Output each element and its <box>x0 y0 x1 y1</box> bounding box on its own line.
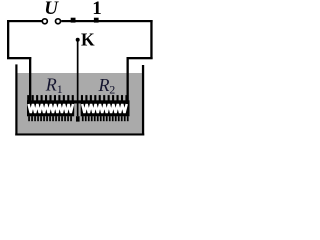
wire: left feed into R1 <box>29 57 31 102</box>
terminal: open circle (source U left) <box>42 19 47 24</box>
resistor R2 heating coil <box>81 95 130 121</box>
wire: switch K lead down to coils <box>77 41 79 102</box>
wire: top horizontal from terminal to right corner <box>61 20 152 22</box>
calorimeter vessel right wall <box>142 65 144 136</box>
calorimeter vessel bottom <box>15 133 144 135</box>
center coil junction stem <box>77 103 79 116</box>
wire: right vertical drop <box>150 20 152 59</box>
terminal: open circle (source U right) <box>56 19 61 24</box>
svg-text:1: 1 <box>57 82 63 96</box>
wire: top-left horizontal to source terminal <box>7 20 42 22</box>
calorimeter vessel left wall <box>15 64 17 135</box>
svg-text:R: R <box>45 74 57 94</box>
coil top bus bar joining R1 and R2 <box>27 100 130 103</box>
svg-text:R: R <box>98 75 110 95</box>
wire: left step horizontal <box>7 57 31 59</box>
svg-text:U: U <box>44 0 59 19</box>
liquid (gray water in calorimeter vessel) <box>17 73 141 133</box>
wire: right feed into R2 <box>127 57 129 102</box>
wire: right step horizontal <box>127 57 153 59</box>
junction dot (node 1) <box>94 18 99 23</box>
junction dot (switch contact) <box>71 18 76 23</box>
svg-text:2: 2 <box>109 82 115 96</box>
wire: left vertical drop <box>7 20 9 59</box>
center coil junction foot <box>76 116 80 121</box>
resistor R1 heating coil <box>27 95 74 121</box>
switch K movable contact dot <box>76 38 80 42</box>
svg-text:1: 1 <box>92 0 102 19</box>
svg-text:K: K <box>81 29 95 49</box>
